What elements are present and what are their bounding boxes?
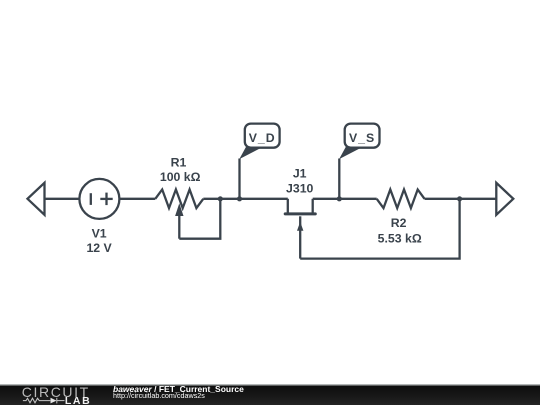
svg-text:J1: J1 [293,167,307,181]
resistor R1 (potentiometer 100k, zigzag + wiper arrow) [155,190,203,239]
port/terminal right (output arrow flag) [496,183,513,215]
footer bar [0,384,540,405]
voltmeter probe V_S [339,124,379,160]
transistor J1 (N-JFET) [285,199,315,259]
svg-text:LAB: LAB [65,395,91,405]
svg-text:V1: V1 [92,227,107,241]
wire: R2 to right port [425,198,497,200]
svg-text:R2: R2 [391,216,407,230]
svg-text:V_D: V_D [249,131,276,145]
svg-text:R1: R1 [171,156,187,170]
svg-text:J310: J310 [286,182,314,196]
footer url text [113,391,205,400]
svg-text:V_S: V_S [349,131,375,145]
wire: gate feedback loop to node B [300,199,459,259]
wire: left port to V1 [45,198,80,200]
CircuitLab logo [0,384,110,405]
svg-text:5.53 kΩ: 5.53 kΩ [378,231,422,245]
port/terminal left (input arrow flag) [28,183,45,215]
voltmeter probe V_D [239,124,279,160]
svg-text:100 kΩ: 100 kΩ [160,170,201,184]
wire: J1 source to R2 [313,198,377,200]
junction node source (V_S tap) [337,196,342,201]
wire: V1 to R1 [119,198,155,200]
footer title text [113,384,244,394]
junction node drain (V_D tap) [237,196,242,201]
wire: R1 wiper feedback loop to node A [179,199,220,239]
junction node A (R1 right terminal / wiper tie) [218,196,223,201]
svg-text:12 V: 12 V [86,241,112,255]
voltage source V1 [79,179,119,219]
wire: V_S probe lead [338,159,340,199]
resistor R2 (zigzag) [377,190,425,209]
junction node B (R2 right terminal / gate tie) [457,196,462,201]
wire: R1 to J1 drain [203,198,287,200]
wire: V_D probe lead [238,159,240,199]
